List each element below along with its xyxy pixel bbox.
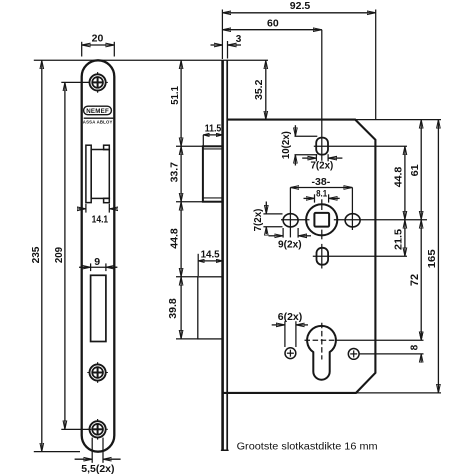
dim 60 [222, 17, 321, 29]
extension line strip top [221, 10, 223, 60]
vertical centerline upper [321, 30, 323, 161]
dim 5,5(2x) screw hole [75, 438, 121, 474]
extension line plate bottom [34, 451, 80, 453]
follower vertical centerline ticks [321, 199, 323, 239]
svg-text:51.1: 51.1 [169, 86, 181, 105]
dim 72 [409, 220, 421, 340]
cylinder extension line to right [336, 339, 423, 341]
faceplate strip side view [222, 60, 229, 450]
case bottom extension line [356, 392, 441, 394]
horizontal centerline follower row right [334, 219, 427, 221]
dim 14.1 latch width [78, 204, 117, 226]
dim 6(2x) [272, 312, 308, 347]
follower circle [306, 204, 337, 235]
oval hole bottom [317, 248, 329, 265]
svg-text:5,5(2x): 5,5(2x) [81, 463, 114, 474]
ASSA ABLOY text [83, 119, 113, 124]
dim 9 lower slot width [79, 256, 117, 271]
dim 51.1 [169, 60, 181, 146]
dim 7(2x) oval width [302, 154, 342, 172]
screw hole top [87, 72, 108, 93]
svg-text:92.5: 92.5 [290, 0, 311, 12]
svg-text:ASSA ABLOY: ASSA ABLOY [83, 119, 113, 124]
hole 6mm left [285, 348, 296, 359]
svg-text:33.7: 33.7 [169, 162, 181, 183]
cylinder vertical dashed centerline [321, 323, 323, 360]
dim 39.8 [167, 277, 181, 339]
svg-text:44.8: 44.8 [393, 167, 405, 188]
vertical centerline oval bottom [321, 244, 323, 269]
svg-text:20: 20 [92, 33, 104, 45]
svg-text:9(2x): 9(2x) [278, 240, 302, 251]
dim 38 hole spacing [290, 176, 352, 237]
case top extension line [355, 119, 441, 121]
hole 9mm right [345, 214, 360, 227]
svg-text:235: 235 [30, 246, 42, 263]
oval hole top [316, 138, 328, 155]
dim 9(2x) hole width [269, 228, 312, 251]
dim 165 case height [426, 120, 438, 393]
dim 8 [409, 332, 421, 363]
svg-text:10(2x): 10(2x) [281, 131, 292, 159]
lower box side view [198, 277, 223, 339]
faceplate outline [82, 60, 115, 451]
svg-text:8.1: 8.1 [316, 188, 328, 199]
svg-text:3: 3 [236, 34, 242, 45]
dim 21.5 [393, 220, 405, 257]
extension box bottom [176, 338, 198, 340]
svg-text:6(2x): 6(2x) [278, 312, 303, 323]
extension line top hole [61, 81, 89, 83]
follower square hole [314, 213, 329, 227]
extension line plate top [34, 59, 268, 61]
latch cutout bottom-right tab [104, 198, 110, 202]
extension line case right top [375, 10, 377, 120]
svg-text:165: 165 [426, 249, 438, 268]
extension latch bottom [176, 201, 222, 203]
right 6mm hole extension line [359, 353, 423, 355]
hole 6mm right [348, 349, 359, 360]
oval bottom horizontal centerline [313, 255, 407, 257]
svg-text:39.8: 39.8 [167, 298, 179, 319]
svg-text:Grootste slotkastdikte 16 mm: Grootste slotkastdikte 16 mm [237, 441, 378, 452]
extension line bottom hole [61, 428, 91, 430]
dim 61 [409, 120, 421, 220]
svg-text:44.8: 44.8 [169, 228, 181, 249]
latch bolt side view [203, 146, 223, 201]
svg-text:NEMEF: NEMEF [86, 108, 109, 115]
NEMEF logo oval [84, 106, 112, 115]
extension latch top [176, 145, 203, 147]
profile cylinder hole [307, 326, 336, 380]
svg-text:209: 209 [53, 247, 65, 263]
dim 3 plate thickness [211, 34, 242, 59]
screw hole bottom [87, 419, 108, 440]
svg-text:11.5: 11.5 [205, 124, 222, 135]
extension box top [176, 276, 198, 278]
dim 44.8 left [169, 202, 182, 277]
dim 235 overall [30, 60, 42, 451]
lock case outline [223, 120, 376, 393]
dim 92.5 [222, 0, 375, 13]
screw hole middle [87, 362, 108, 383]
dim 33.7 [169, 146, 182, 201]
svg-text:60: 60 [267, 17, 279, 29]
latch cutout top-right tab [104, 145, 110, 149]
cylinder horizontal dashed centerline [305, 339, 337, 341]
dim 8.1 square [304, 188, 340, 202]
dim 209 hole spacing [53, 82, 65, 429]
dim 14.5 box depth [198, 250, 222, 276]
dim 7(2x) hole height [253, 202, 282, 235]
svg-text:-38-: -38- [312, 176, 331, 188]
svg-text:7(2x): 7(2x) [253, 209, 264, 232]
svg-text:7(2x): 7(2x) [311, 161, 334, 172]
svg-text:14.1: 14.1 [92, 213, 109, 225]
dim 44.8 right [393, 146, 405, 220]
hole 9mm left [283, 214, 298, 227]
logo divider line [84, 117, 114, 119]
dim 20 plate width [82, 33, 115, 57]
svg-text:35.2: 35.2 [253, 79, 265, 100]
dim 10(2x) [281, 125, 318, 165]
lower slot rectangle [91, 275, 106, 341]
dim 35.2 [253, 60, 266, 119]
horizontal centerline follower row left [281, 219, 310, 221]
oval top horizontal centerline [314, 145, 407, 147]
latch cutout left rail [86, 145, 91, 202]
svg-text:61: 61 [409, 164, 421, 176]
svg-text:21.5: 21.5 [393, 229, 405, 250]
svg-text:14.5: 14.5 [201, 250, 220, 261]
svg-text:72: 72 [409, 274, 421, 286]
svg-text:9: 9 [94, 256, 100, 268]
dim 11.5 latch projection [203, 124, 222, 147]
note Grootste slotkastdikte 16 mm [237, 441, 378, 452]
svg-text:8: 8 [409, 344, 420, 350]
latch cutout body [91, 150, 109, 199]
